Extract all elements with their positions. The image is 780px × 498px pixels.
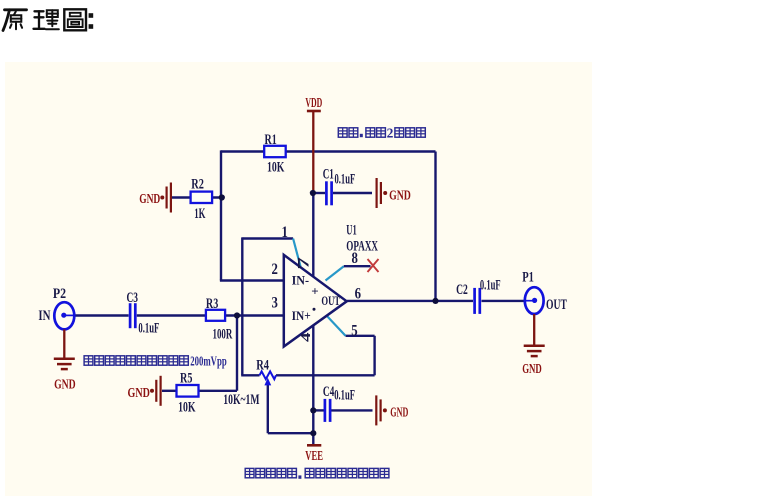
wire R4 row left	[241, 374, 259, 376]
svg-text:R2: R2	[191, 176, 204, 192]
svg-text:GND: GND	[389, 189, 411, 204]
ground symbol GND at P2	[54, 359, 75, 369]
svg-text:10K: 10K	[267, 160, 285, 176]
wire R2 to node A	[172, 196, 222, 198]
capacitor C1 plates	[325, 181, 328, 205]
annotation: 发货 (top)	[338, 128, 357, 137]
svg-text:8: 8	[352, 250, 358, 267]
wire pin 4 / VEE vertical	[312, 325, 314, 445]
svg-text:10K: 10K	[178, 400, 196, 416]
wire R5 to node B	[199, 390, 238, 392]
P1 ground stem	[533, 314, 535, 345]
svg-text:VEE: VEE	[305, 449, 323, 464]
resistor R3 body	[206, 310, 225, 321]
wire C3 to R3	[137, 314, 206, 316]
svg-text:C4: C4	[323, 384, 335, 400]
junction VEE/C4	[310, 407, 316, 413]
op-amp minus dot	[313, 308, 316, 311]
ground symbol GND at C4	[376, 395, 380, 425]
svg-text:2: 2	[387, 125, 394, 140]
annotation: 倍放大 (top)	[395, 128, 425, 137]
connector P1	[525, 287, 544, 314]
svg-text:R4: R4	[256, 357, 269, 373]
svg-text:R3: R3	[206, 296, 218, 312]
resistor R5 body	[177, 385, 199, 397]
svg-text:C2: C2	[456, 282, 468, 298]
wire wiper to VEE node	[268, 432, 314, 434]
ground symbol GND at P1	[524, 346, 545, 356]
svg-text:6: 6	[355, 286, 361, 303]
wire pin 8 horizontal	[344, 265, 371, 267]
svg-text:0.1uF: 0.1uF	[138, 320, 159, 336]
wire C1 right to GND	[333, 192, 372, 194]
ground symbol GND at R5	[156, 376, 160, 406]
wire pin 2 horizontal	[220, 279, 284, 281]
svg-text:100R: 100R	[213, 327, 233, 343]
P2 ground stem	[63, 329, 65, 358]
svg-text:OUT: OUT	[546, 297, 567, 313]
svg-text:10K~1M: 10K~1M	[223, 392, 259, 408]
svg-text:200mVpp: 200mVpp	[190, 353, 227, 368]
svg-text:C3: C3	[127, 290, 139, 306]
svg-text:0.1uF: 0.1uF	[480, 277, 501, 293]
svg-text:GND: GND	[128, 386, 150, 401]
ground symbol GND at C1	[377, 178, 381, 208]
svg-text:GND: GND	[54, 377, 76, 392]
wire pin 5 horizontal	[346, 335, 375, 337]
wire pin 5 diagonal	[327, 316, 346, 336]
svg-text:3: 3	[272, 295, 278, 312]
svg-text:0.1uF: 0.1uF	[334, 387, 355, 403]
annotation: 默认 (top)	[366, 128, 386, 137]
svg-text:0.1uF: 0.1uF	[335, 171, 356, 187]
wire pin 5 vertical	[373, 336, 375, 376]
svg-text:IN: IN	[38, 308, 50, 324]
wire OUT row	[347, 300, 473, 302]
wire R4 row right	[276, 374, 375, 376]
potentiometer R4 wiper arrow	[264, 378, 271, 386]
svg-text:VDD: VDD	[305, 96, 322, 111]
svg-text:2: 2	[272, 261, 278, 278]
title colon	[89, 13, 94, 18]
capacitor C4 plates	[324, 399, 327, 422]
svg-text:C1: C1	[323, 166, 334, 182]
VEE power symbol	[307, 444, 321, 447]
no-connect X on pin 8	[368, 259, 379, 272]
wire node B vertical (R3 to R5)	[236, 316, 238, 391]
wire pin 1 horizontal	[242, 237, 293, 239]
wire C4 left	[313, 409, 324, 411]
connector P2	[54, 302, 74, 329]
schematic panel background	[5, 62, 592, 496]
svg-text:P2: P2	[53, 286, 66, 302]
svg-text:4: 4	[298, 332, 313, 342]
svg-text:+: +	[311, 284, 318, 299]
junction OUT/feedback	[432, 298, 438, 304]
resistor R1 body	[264, 146, 286, 157]
wire R3 to pin 3	[225, 314, 284, 316]
junction VDD/C1	[310, 190, 316, 196]
svg-text:U1: U1	[346, 223, 356, 239]
wire pin 1 diagonal	[293, 239, 300, 267]
junction node A at R2	[219, 194, 225, 200]
wire left vertical node A (R1/R2 to pin 2)	[220, 150, 222, 280]
svg-text:GND: GND	[390, 405, 408, 420]
title 原理圖：	[3, 9, 86, 30]
ground symbol GND at R2	[167, 183, 171, 213]
wire R5 left to GND	[162, 390, 177, 392]
capacitor C3 plates	[129, 303, 132, 328]
junction node B at R3	[234, 312, 240, 318]
svg-text:1: 1	[282, 224, 288, 241]
wire pin 8 diagonal	[326, 266, 344, 280]
wire right vertical (feedback to OUT node)	[434, 152, 436, 301]
wire C1 left	[313, 192, 325, 194]
wire feedback top (node A to right vertical) with R1	[221, 150, 436, 152]
svg-text:IN-: IN-	[292, 273, 310, 288]
capacitor C2 plates	[473, 288, 476, 314]
svg-text:OUT: OUT	[321, 293, 340, 308]
wire C4 right to GND	[331, 409, 373, 411]
annotation: 输入信号幅度尽量大于 (mid)	[84, 356, 188, 365]
wire VDD vertical to pin 7	[312, 192, 314, 276]
annotation: 偏置电阻值 (bottom)	[245, 468, 296, 477]
svg-text:R5: R5	[180, 371, 192, 387]
op-amp U1 triangle	[284, 255, 347, 347]
VDD stem	[312, 111, 314, 194]
svg-text:P1: P1	[522, 270, 534, 286]
annotation: 随电压增加而增加 (bottom)	[305, 468, 389, 477]
VDD power symbol	[307, 110, 321, 113]
svg-text:GND: GND	[139, 192, 160, 207]
wire P2 to C3	[74, 314, 128, 316]
resistor R2 body	[191, 192, 213, 203]
svg-text:GND: GND	[522, 362, 542, 377]
svg-text:5: 5	[351, 322, 357, 339]
junction VEE/wiper	[310, 430, 316, 436]
potentiometer R4 zigzag	[260, 371, 277, 379]
wire C2 to P1	[482, 300, 526, 302]
svg-text:7: 7	[296, 257, 313, 270]
wire R4 wiper down	[267, 384, 269, 433]
wire left vertical B (pin1 to R4)	[241, 237, 243, 375]
svg-text:R1: R1	[265, 132, 277, 148]
svg-text:1K: 1K	[194, 206, 205, 222]
svg-text:IN+: IN+	[292, 308, 311, 323]
